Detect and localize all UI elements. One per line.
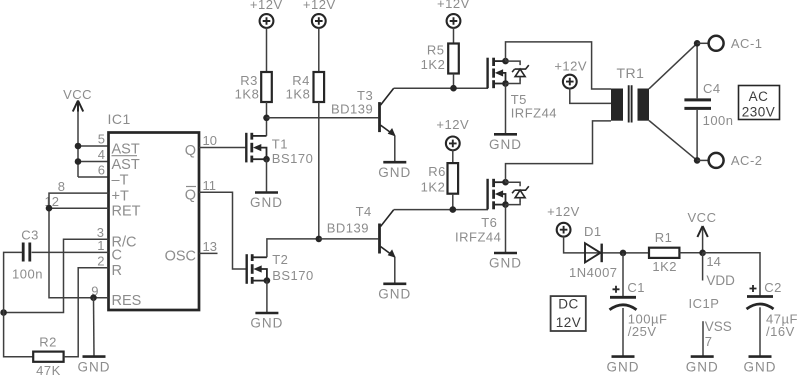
IC1 pin 9 (RES)	[91, 283, 141, 309]
svg-text:1K8: 1K8	[286, 86, 311, 101]
wire pins 8,12 down to pin 9 (reset rail)	[49, 193, 109, 298]
IC1 pin 2 (R)	[97, 253, 122, 279]
svg-text:13: 13	[203, 239, 217, 254]
supply +12V (TR1 center tap)	[554, 59, 587, 89]
transistor T5 IRFZ44	[488, 58, 557, 121]
svg-text:BD139: BD139	[331, 102, 373, 117]
svg-text:IC1P: IC1P	[689, 296, 720, 311]
power flag VCC (right)	[688, 210, 717, 253]
svg-text:+12V: +12V	[437, 0, 470, 11]
svg-text:GND: GND	[378, 287, 411, 302]
junction AC-1 node	[694, 40, 701, 47]
resistor R4 1K8	[286, 72, 324, 102]
transistor T2 BS170	[247, 252, 314, 284]
IC1 pin 10 (Q)	[185, 133, 217, 159]
svg-text:47K: 47K	[36, 363, 61, 378]
wire +12V to D1 anode	[564, 236, 649, 253]
diode D1 1N4007	[569, 224, 618, 280]
svg-text:RET: RET	[112, 204, 141, 220]
junction R3 / T1 drain	[263, 115, 270, 122]
svg-text:–T: –T	[112, 172, 129, 188]
svg-text:4: 4	[98, 147, 105, 162]
wire left rail down to R2	[4, 313, 33, 357]
svg-text:IC1: IC1	[108, 111, 131, 127]
resistor R2 47K	[33, 335, 63, 378]
wire VCC node to C2	[703, 253, 760, 297]
IC1 pin 5 (AST)	[98, 132, 140, 158]
wire R4 down to junction (T2 drain)	[318, 102, 320, 239]
wire pin 5 stub	[78, 145, 109, 147]
svg-text:+T: +T	[112, 188, 129, 204]
transistor T4 BD139	[327, 204, 396, 258]
svg-text:1: 1	[97, 238, 104, 253]
svg-text:AC-1: AC-1	[731, 36, 763, 51]
resistor R6 1K2	[421, 163, 458, 194]
supply +12V (above R6)	[436, 117, 469, 163]
wire C4 to AC-2 node	[696, 110, 698, 160]
svg-text:100n: 100n	[12, 267, 43, 282]
capacitor C2 47uF/16V	[747, 280, 798, 339]
svg-text:2: 2	[97, 253, 104, 268]
svg-text:GND: GND	[489, 256, 522, 271]
wire T2 drain up and right to junction	[267, 239, 319, 257]
svg-text:BS170: BS170	[272, 151, 314, 166]
svg-text:T2: T2	[272, 252, 288, 267]
wire T3 collector to T5 gate line	[394, 87, 488, 89]
IC IC1 (CD4047 astable) body	[108, 111, 200, 310]
supply +12V (above R3)	[250, 0, 283, 72]
svg-text:GND: GND	[686, 359, 719, 374]
ground (IC1P VSS)	[686, 357, 719, 375]
svg-text:+12V: +12V	[547, 204, 580, 219]
svg-text:+12V: +12V	[436, 117, 469, 132]
wire center tap to TR1	[570, 88, 611, 104]
svg-text:T6: T6	[481, 215, 497, 230]
wire R5 to gate line	[453, 74, 455, 89]
svg-text:1K2: 1K2	[421, 179, 446, 194]
IC1 pin 13 stub wire	[199, 252, 218, 254]
IC1 pin 8 (+T)	[58, 179, 129, 205]
svg-text:R2: R2	[39, 335, 57, 350]
svg-text:BS170: BS170	[272, 268, 314, 283]
wire junction to T4 base	[319, 238, 378, 240]
capacitor C3 100n	[12, 228, 43, 282]
IC1 pin 3 (R/C)	[97, 225, 137, 251]
IC1 pin 4 (AST)	[98, 147, 140, 173]
svg-text:AST: AST	[112, 157, 140, 173]
label box DC 12V	[551, 296, 586, 331]
svg-text:/16V: /16V	[766, 324, 795, 339]
wire junction to T3 base	[267, 117, 379, 119]
svg-text:GND: GND	[250, 316, 283, 331]
svg-text:/25V: /25V	[628, 324, 657, 339]
svg-text:AC: AC	[749, 89, 769, 104]
svg-text:+12V: +12V	[303, 0, 336, 12]
svg-text:D1: D1	[584, 224, 602, 239]
ground (T3 emitter)	[378, 136, 411, 180]
supply +12V (above R4)	[303, 0, 336, 72]
svg-text:Q: Q	[185, 143, 196, 159]
IC1P power pin 7 VSS	[703, 319, 732, 357]
ground (T4 emitter)	[378, 257, 411, 301]
svg-text:230V: 230V	[742, 105, 776, 120]
wire pin 10 Q to T1 gate	[199, 147, 246, 149]
wire VCC rail to pin 6	[78, 176, 109, 178]
IC1P power pin 14 VDD	[703, 253, 736, 288]
junction left rail / R-C	[0, 309, 7, 316]
IC1 pin 12 (RET)	[45, 194, 141, 220]
wire T6 drain to TR1 primary bottom	[506, 121, 612, 182]
transistor T6 IRFZ44	[455, 179, 529, 245]
resistor R1 1K2	[649, 230, 679, 274]
transistor T1 BS170	[246, 133, 313, 166]
svg-text:+12V: +12V	[554, 59, 587, 74]
svg-text:VDD: VDD	[706, 273, 735, 288]
ground (T6 source)	[489, 205, 522, 271]
ground (T2 source)	[250, 281, 283, 331]
svg-text:5: 5	[98, 132, 105, 147]
resistor R3 1K8	[235, 72, 272, 102]
svg-text:C4: C4	[703, 81, 721, 96]
svg-text:GND: GND	[489, 137, 522, 152]
wire R2 to pin 2 (R)	[64, 268, 109, 357]
wire T4 collector to T6 gate line	[394, 209, 488, 211]
svg-text:C: C	[112, 248, 122, 264]
wire R1 to VCC node	[679, 252, 702, 254]
svg-text:R5: R5	[427, 43, 445, 58]
wire pin 12 stub	[49, 207, 109, 209]
ground (T5 source)	[489, 84, 522, 153]
wire pin 11 Q&#773; to T2 gate	[199, 192, 247, 269]
svg-text:DC: DC	[558, 297, 579, 312]
IC1 pin 13 (OSC)	[165, 239, 217, 265]
junction R4 / T2 drain	[316, 236, 323, 243]
resistor R5 1K2	[421, 43, 459, 74]
supply +12V (above R5)	[437, 0, 470, 44]
wire pin 3 R/C down-left	[4, 239, 109, 312]
wire C3 right plate to pin 1 (C)	[32, 251, 109, 253]
junction pin 9 / GND	[90, 294, 97, 301]
terminal AC-2	[697, 153, 762, 168]
wire R6 to gate line	[452, 194, 454, 210]
IC1P label	[689, 296, 720, 311]
junction AC-2 node	[694, 157, 701, 164]
wire TR1 secondary bottom diagonal	[649, 121, 697, 161]
svg-text:C3: C3	[21, 228, 39, 243]
svg-text:Q: Q	[185, 188, 196, 204]
svg-text:11: 11	[203, 178, 217, 193]
svg-text:IRFZ44: IRFZ44	[455, 230, 501, 245]
svg-text:T1: T1	[272, 137, 288, 152]
wire TR1 secondary top diagonal	[649, 43, 697, 89]
svg-text:R1: R1	[655, 230, 673, 245]
svg-text:C1: C1	[627, 280, 645, 295]
junction pin 12	[46, 205, 53, 212]
wire AC-1 node to C4	[696, 43, 698, 98]
IC1 pin 1 (C)	[97, 238, 122, 264]
svg-text:RES: RES	[112, 293, 142, 309]
svg-text:C2: C2	[764, 280, 782, 295]
svg-text:10: 10	[203, 133, 217, 148]
svg-text:R: R	[112, 263, 122, 279]
svg-text:GND: GND	[78, 359, 111, 374]
ground (T1 source)	[250, 159, 283, 210]
svg-text:1K8: 1K8	[235, 86, 260, 101]
svg-text:T4: T4	[356, 204, 372, 219]
transistor T3 BD139	[331, 88, 396, 136]
supply +12V (DC input)	[547, 204, 580, 237]
svg-text:AST: AST	[112, 141, 140, 157]
wire pin 4 stub	[78, 161, 109, 163]
svg-text:VSS: VSS	[705, 319, 732, 334]
svg-text:7: 7	[705, 334, 712, 349]
label box AC 230V	[739, 86, 780, 120]
svg-text:IRFZ44: IRFZ44	[511, 105, 557, 120]
ground (C1)	[607, 308, 640, 374]
power flag VCC (left)	[63, 87, 92, 177]
capacitor C4 100n	[684, 81, 733, 128]
svg-text:12V: 12V	[556, 315, 582, 330]
junction R6 / T6 gate	[450, 206, 457, 213]
IC1 pin 6 (&#8211;T)	[98, 163, 129, 189]
svg-text:1K2: 1K2	[652, 259, 677, 274]
transformer TR1	[611, 65, 649, 123]
junction VCC node	[699, 250, 706, 257]
ground (C2)	[744, 307, 777, 374]
svg-text:OSC: OSC	[165, 249, 196, 265]
svg-text:GND: GND	[607, 359, 640, 374]
wire C3 left plate to left rail	[4, 252, 23, 312]
svg-text:1K2: 1K2	[421, 57, 446, 72]
svg-text:+12V: +12V	[250, 0, 283, 12]
capacitor C1 100uF/25V	[610, 253, 668, 339]
junction pin 5 / VCC	[75, 143, 82, 150]
svg-text:14: 14	[706, 254, 720, 269]
svg-text:VCC: VCC	[688, 210, 717, 225]
junction D1 / R1 / C1	[620, 250, 627, 257]
junction R5 / T5 gate	[450, 85, 457, 92]
svg-text:1N4007: 1N4007	[569, 265, 618, 280]
svg-text:100n: 100n	[703, 113, 734, 128]
svg-text:GND: GND	[378, 165, 411, 180]
svg-text:BD139: BD139	[327, 221, 369, 236]
wire T5 drain to TR1 primary top	[506, 42, 612, 89]
svg-text:TR1: TR1	[617, 65, 645, 81]
IC1 pin 11 (Q)	[185, 178, 216, 204]
svg-text:VCC: VCC	[63, 87, 92, 102]
svg-text:6: 6	[98, 163, 105, 178]
svg-text:8: 8	[58, 179, 65, 194]
svg-text:AC-2: AC-2	[731, 153, 763, 168]
ground (IC1 pin 9)	[78, 298, 111, 375]
svg-text:R6: R6	[428, 164, 446, 179]
junction pin 4 / VCC	[75, 158, 82, 165]
wire T1 drain up to R3	[266, 118, 268, 136]
terminal AC-1	[697, 36, 762, 51]
wire R3 to junction	[266, 102, 268, 118]
svg-text:GND: GND	[744, 359, 777, 374]
svg-text:GND: GND	[250, 195, 283, 210]
